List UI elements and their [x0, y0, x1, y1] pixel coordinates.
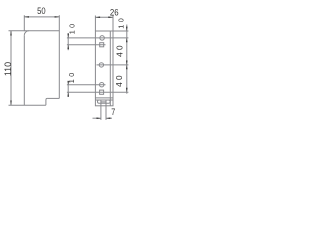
- svg-text:10: 10: [117, 16, 126, 29]
- svg-text:7: 7: [111, 107, 115, 117]
- svg-text:40: 40: [114, 73, 124, 87]
- centerline square 1: [67, 44, 106, 46]
- centerline square 2: [67, 91, 128, 93]
- square 1: [100, 43, 104, 47]
- square 2: [100, 90, 104, 94]
- centerline circle 1: [67, 37, 128, 39]
- left view right edge with 50 extension: [58, 15, 60, 98]
- svg-text:50: 50: [37, 5, 46, 16]
- dim 7 line left: [93, 117, 101, 119]
- left view bottom edge with 110 extension: [9, 104, 46, 106]
- circle 2: [99, 63, 103, 67]
- right view outline: [95, 31, 113, 106]
- mid bottom 10 arrows: [68, 81, 69, 85]
- arrow 26 left: [95, 17, 100, 18]
- mid dim line bottom 10: [67, 82, 69, 98]
- right view bottom fold line 1: [95, 97, 113, 99]
- arrow 50 right: [55, 16, 60, 17]
- left view notch bottom edge: [47, 97, 59, 99]
- left view notch vertical: [45, 100, 47, 105]
- 26 extension right: [112, 16, 114, 31]
- right view right fold line: [109, 31, 111, 106]
- bottom tab right edge + 7 extension: [105, 100, 107, 120]
- dim line 26: [95, 16, 113, 18]
- right view bottom fold line 2: [95, 99, 113, 101]
- arrow 26 right: [108, 17, 113, 18]
- mid dim line top 10: [67, 33, 69, 50]
- svg-text:10: 10: [68, 22, 77, 35]
- chain arrows at 64.9: [126, 61, 127, 65]
- dim line 50: [24, 16, 59, 18]
- arrow 7 left: [97, 118, 101, 119]
- left view top edge with 110 extension: [9, 30, 60, 32]
- arrow 110 down: [10, 101, 11, 106]
- circle 1: [100, 36, 105, 41]
- dim line 110: [10, 31, 12, 105]
- arrow 7 right: [106, 118, 110, 119]
- right chain top extension: [113, 30, 128, 32]
- svg-text:40: 40: [114, 43, 124, 57]
- bottom tab left edge + 7 extension: [100, 100, 102, 120]
- right chain dim line: [126, 25, 128, 94]
- chain arrow down at 31: [126, 27, 127, 31]
- mid top 10 arrows: [68, 34, 69, 38]
- left view top-left fillet: [24, 31, 29, 36]
- arrow 110 up: [10, 31, 11, 36]
- centerline circle 3: [67, 84, 106, 86]
- left view left edge upper extension for 50: [23, 15, 25, 31]
- circle 3: [100, 83, 104, 87]
- centerline circle 2: [97, 64, 129, 66]
- svg-text:110: 110: [3, 62, 13, 76]
- chain arrow down at 92.2: [126, 88, 127, 92]
- bottom tab lower edge: [101, 101, 106, 103]
- bottom slot: [98, 100, 111, 103]
- left view notch fillet: [46, 98, 48, 100]
- arrow 50 left: [24, 16, 29, 17]
- dim 7 line right: [106, 117, 112, 119]
- 26 extension left: [94, 16, 96, 31]
- left view left edge: [23, 35, 25, 105]
- svg-text:10: 10: [67, 70, 76, 83]
- chain arrow up at 37.9: [126, 38, 127, 42]
